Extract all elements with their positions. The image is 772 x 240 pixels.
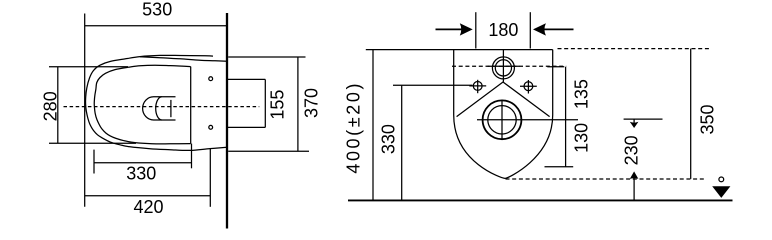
svg-text:530: 530 [142,0,172,20]
svg-text:420: 420 [133,197,163,217]
svg-text:350: 350 [698,104,718,134]
svg-text:280: 280 [40,91,60,121]
svg-text:330: 330 [126,164,156,184]
svg-text:230: 230 [622,135,642,165]
svg-text:330: 330 [379,124,399,154]
svg-text:155: 155 [267,90,287,120]
svg-text:400(±20): 400(±20) [344,81,364,174]
svg-text:130: 130 [571,123,591,153]
svg-text:135: 135 [571,79,591,109]
svg-text:370: 370 [302,88,322,118]
svg-text:180: 180 [488,20,518,40]
